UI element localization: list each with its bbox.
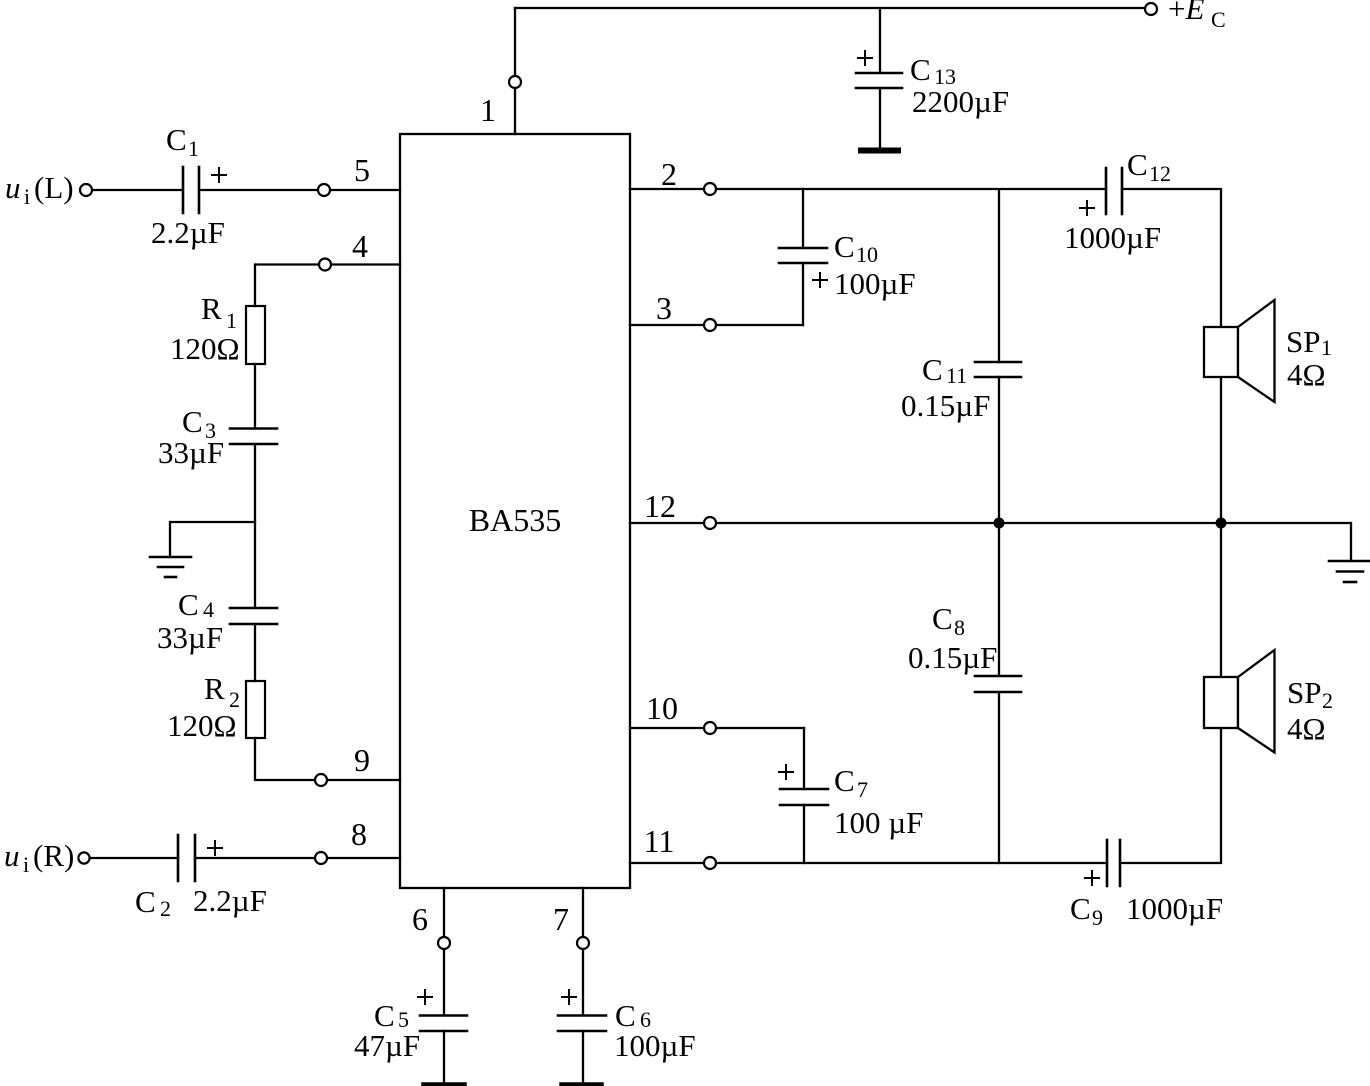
ground bar C13 [861, 148, 898, 154]
svg-text:120Ω: 120Ω [170, 331, 240, 366]
svg-text:7: 7 [553, 901, 569, 937]
wire SP1 to node [1220, 377, 1222, 523]
svg-text:100µF: 100µF [614, 1028, 696, 1063]
C6 polarity plus [561, 989, 577, 1005]
svg-text:SP: SP [1287, 675, 1321, 710]
wire pin 11 to C9 [630, 862, 1107, 864]
svg-text:C: C [178, 587, 199, 622]
svg-text:u: u [4, 838, 20, 873]
terminal ui(R) [78, 852, 89, 863]
speaker SP2 [1204, 650, 1275, 753]
svg-text:SP: SP [1286, 324, 1320, 359]
pin 2 node [704, 183, 716, 195]
capacitor C12 [1106, 168, 1122, 214]
svg-text:1: 1 [226, 308, 237, 333]
svg-text:C: C [1070, 891, 1091, 926]
wire C5 to ground bar [443, 1031, 445, 1083]
svg-text:33µF: 33µF [157, 620, 223, 655]
ground bar C6 [562, 1082, 601, 1086]
pin 5 node [318, 184, 330, 196]
svg-text:C: C [834, 229, 855, 264]
svg-text:C: C [910, 52, 931, 87]
svg-text:4Ω: 4Ω [1287, 357, 1326, 392]
capacitor C1 [183, 167, 199, 213]
svg-text:1000µF: 1000µF [1064, 220, 1161, 255]
svg-text:12: 12 [644, 488, 676, 524]
IC U1 BA535 box [400, 134, 630, 888]
capacitor C3 [230, 429, 277, 445]
wire C12 to SP1 [1122, 189, 1221, 327]
svg-text:9: 9 [354, 742, 370, 778]
ground right [1329, 561, 1370, 582]
wire SP2 to node [1220, 523, 1222, 677]
capacitor C10 [779, 248, 827, 263]
svg-text:C: C [1211, 7, 1226, 32]
svg-text:10: 10 [856, 242, 878, 267]
capacitor C11 [975, 362, 1021, 377]
pin 9 node [315, 774, 327, 786]
wire R1 to C3 [254, 364, 256, 428]
wire C1 to pin 5 [199, 189, 400, 191]
svg-text:100 µF: 100 µF [834, 805, 923, 840]
svg-text:5: 5 [354, 152, 370, 188]
svg-text:100µF: 100µF [834, 266, 916, 301]
svg-text:120Ω: 120Ω [167, 708, 237, 743]
svg-text:12: 12 [1149, 161, 1171, 186]
svg-text:2.2µF: 2.2µF [193, 883, 267, 918]
wire pin 6 [443, 888, 445, 1015]
terminal +EC [1145, 3, 1157, 15]
pin 3 node [704, 319, 716, 331]
wire C10 branch bottom [802, 263, 804, 325]
capacitor C9 [1107, 840, 1120, 886]
svg-text:BA535: BA535 [469, 502, 561, 538]
svg-text:C: C [834, 763, 855, 798]
wire C9 to SP2 [1120, 728, 1221, 863]
wire ground stub [170, 522, 255, 557]
svg-text:0.15µF: 0.15µF [908, 640, 997, 675]
wire C8 branch bottom [998, 692, 1000, 863]
C9 polarity plus [1084, 870, 1100, 886]
C12 polarity plus [1079, 200, 1095, 216]
wire R2 to pin 9 [255, 738, 400, 780]
node junction dot right [1216, 518, 1227, 529]
pin 7 node [577, 937, 589, 949]
svg-text:2200µF: 2200µF [912, 84, 1009, 119]
svg-text:3: 3 [656, 290, 672, 326]
ground bar C5 [424, 1082, 464, 1086]
wire C11 branch top [998, 190, 1000, 362]
wire C13 to ground bar [879, 88, 881, 147]
pin 8 node [315, 852, 327, 864]
wire pin 4 to feedback node [255, 265, 400, 307]
C5 polarity plus [417, 989, 433, 1005]
capacitor C8 [975, 676, 1021, 692]
svg-text:R: R [204, 671, 225, 706]
svg-text:C: C [932, 601, 953, 636]
wire pin 7 [582, 888, 584, 1015]
svg-text:1000µF: 1000µF [1126, 891, 1223, 926]
C10 polarity plus [812, 272, 828, 288]
svg-text:2: 2 [160, 896, 171, 921]
svg-text:7: 7 [857, 777, 868, 802]
svg-text:2.2µF: 2.2µF [151, 215, 225, 250]
C13 polarity plus [857, 50, 873, 66]
wire input L to C1 [90, 189, 183, 191]
speaker SP1 [1204, 300, 1275, 402]
capacitor C6 [558, 1016, 606, 1032]
svg-text:C: C [166, 122, 187, 157]
svg-text:1: 1 [480, 92, 496, 128]
svg-text:(R): (R) [33, 838, 74, 873]
capacitor C4 [230, 608, 277, 624]
C1 polarity plus [211, 167, 227, 183]
C2 polarity plus [207, 840, 223, 856]
wire pin10 to C7 [803, 728, 805, 789]
svg-text:C: C [922, 352, 943, 387]
svg-text:C: C [135, 884, 156, 919]
svg-text:1: 1 [188, 136, 199, 161]
svg-text:0.15µF: 0.15µF [901, 388, 990, 423]
svg-text:+E: +E [1168, 0, 1204, 26]
capacitor C2 [178, 835, 195, 881]
ground left [150, 557, 191, 577]
wire C8 branch top [998, 523, 1000, 676]
terminal ui(L) [80, 184, 92, 196]
svg-text:4: 4 [352, 228, 368, 264]
svg-text:6: 6 [412, 901, 428, 937]
svg-text:R: R [201, 291, 222, 326]
wire C7 to pin 11 wire [803, 805, 805, 863]
svg-text:8: 8 [954, 615, 965, 640]
node junction dot left [994, 518, 1005, 529]
capacitor C5 [420, 1016, 467, 1032]
svg-text:i: i [23, 852, 29, 877]
svg-text:u: u [5, 170, 21, 205]
wire C4 to R2 [254, 624, 256, 681]
svg-text:11: 11 [644, 823, 675, 859]
svg-text:47µF: 47µF [354, 1028, 420, 1063]
wire pin 10 [630, 727, 804, 729]
pin 12 node [704, 517, 716, 529]
wire input R to C2 [90, 857, 178, 859]
svg-text:4Ω: 4Ω [1287, 711, 1326, 746]
wire C3 to C4 [254, 444, 256, 608]
wire supply rail [515, 7, 1145, 9]
wire C10 branch top [802, 189, 804, 248]
wire mid ground rail [630, 523, 1351, 561]
resistor R1 [246, 306, 265, 364]
svg-text:4: 4 [203, 597, 214, 622]
pin 1 node [509, 76, 521, 88]
wire C2 to pin 8 [195, 857, 400, 859]
resistor R2 [246, 681, 265, 738]
capacitor C7 [780, 789, 828, 805]
svg-text:2: 2 [661, 156, 677, 192]
svg-text:11: 11 [946, 363, 967, 388]
wire pin 1 to supply rail [514, 8, 516, 134]
svg-text:33µF: 33µF [158, 435, 224, 470]
wire rail to C13 [879, 8, 881, 73]
svg-text:C: C [1127, 147, 1148, 182]
pin 6 node [438, 937, 450, 949]
wire C6 to ground bar [582, 1031, 584, 1083]
pin 10 node [704, 722, 716, 734]
C7 polarity plus [778, 764, 794, 780]
wire pin 3 [630, 324, 803, 326]
pin 11 node [704, 857, 716, 869]
svg-text:(L): (L) [34, 170, 74, 205]
svg-text:10: 10 [646, 690, 678, 726]
capacitor C13 [856, 73, 902, 88]
svg-text:i: i [24, 184, 30, 209]
svg-text:8: 8 [351, 816, 367, 852]
svg-text:2: 2 [1322, 688, 1333, 713]
wire pin 2 to C12 [630, 188, 1106, 190]
svg-text:C: C [182, 404, 203, 439]
svg-text:9: 9 [1092, 905, 1103, 930]
pin 4 node [319, 259, 331, 271]
wire C11 branch bottom [998, 377, 1000, 523]
